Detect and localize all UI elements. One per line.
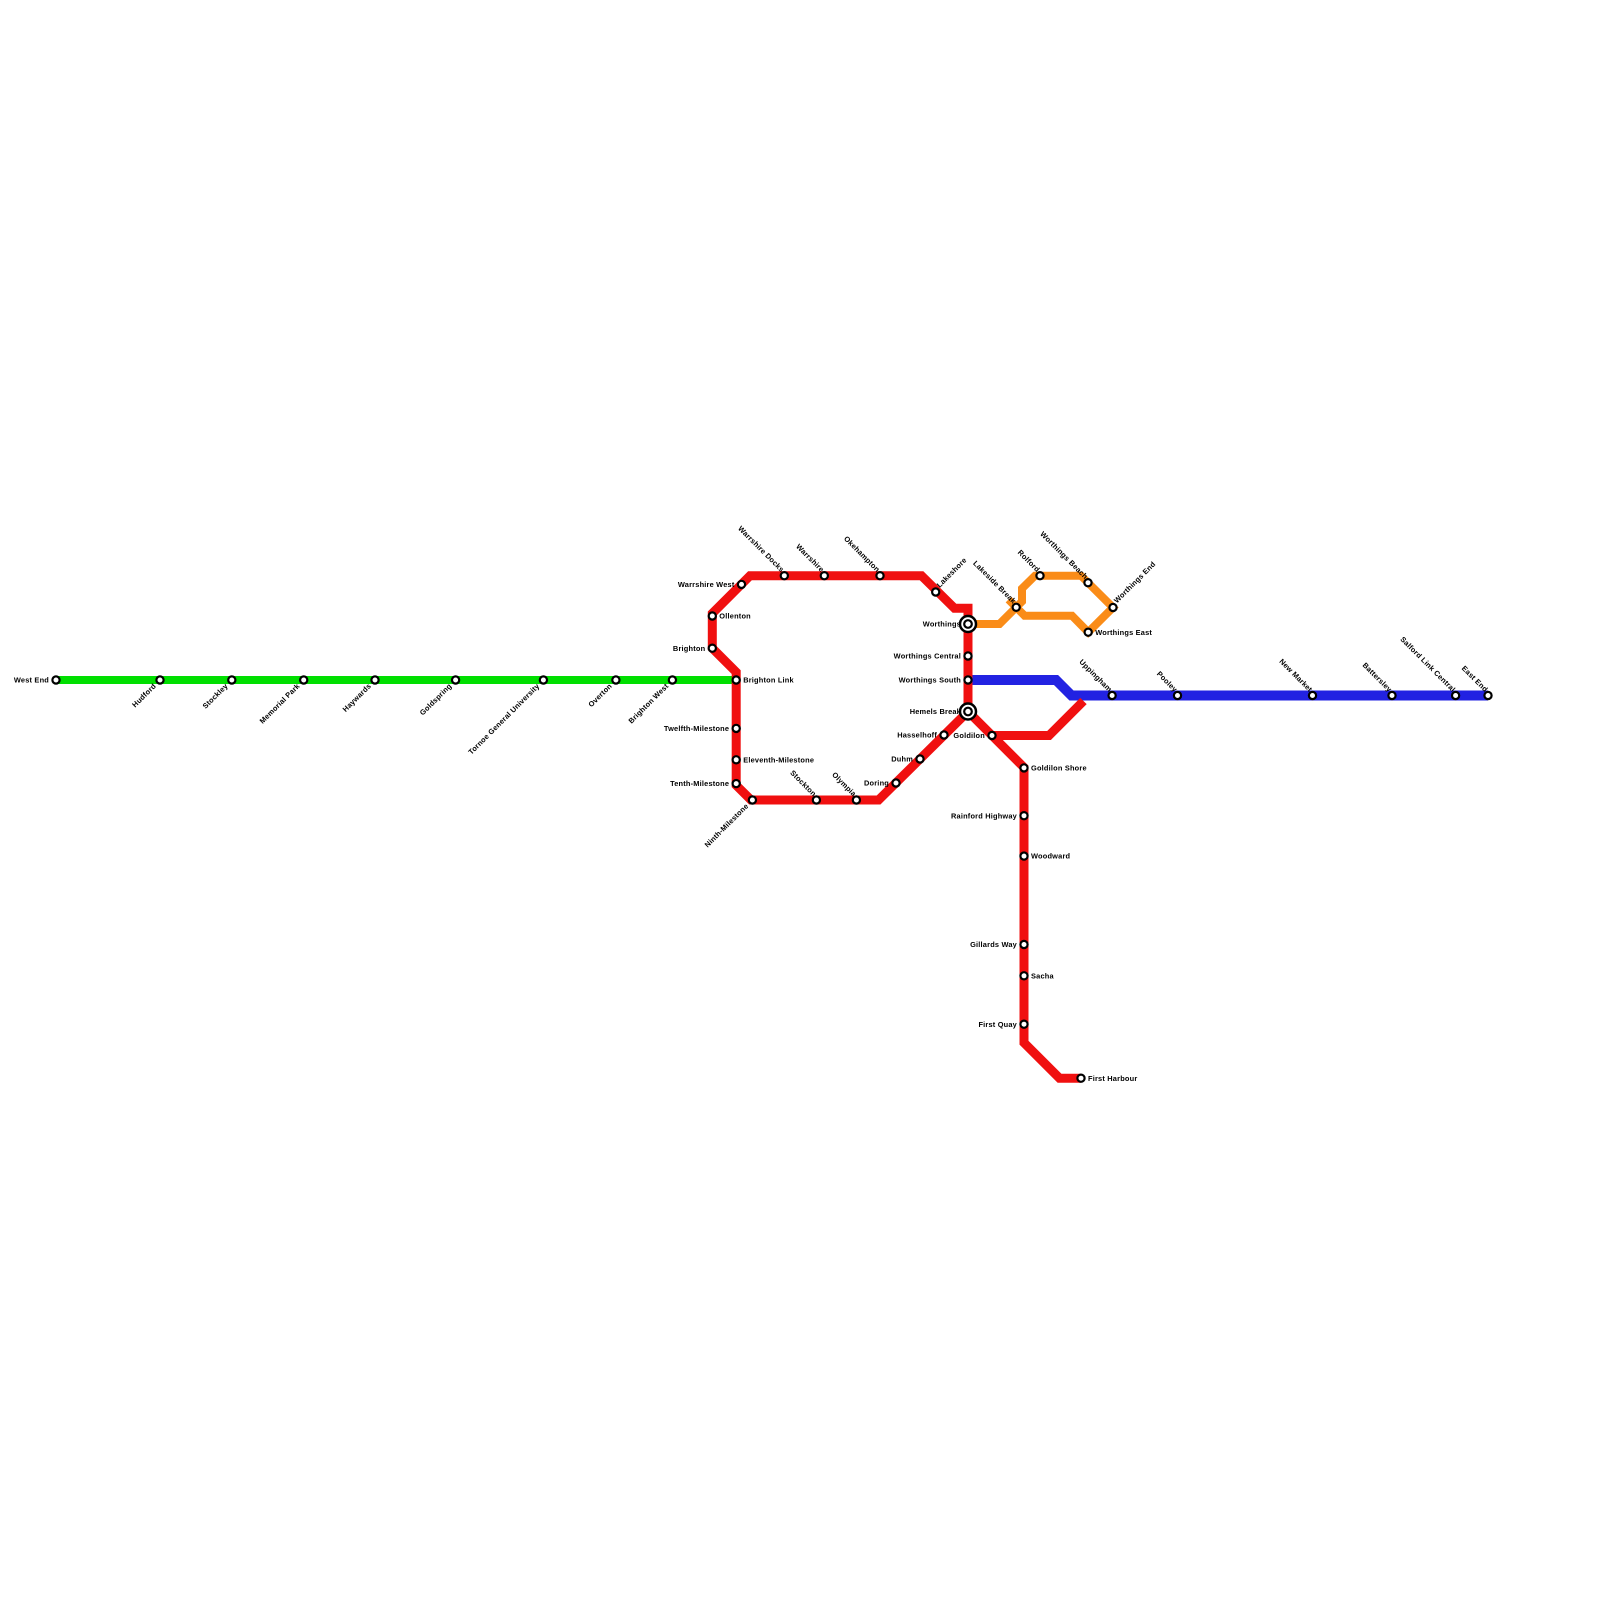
station Lakeside Break	[1013, 604, 1020, 611]
svg-text:West End: West End	[14, 676, 49, 685]
station Stockton	[813, 796, 820, 803]
station Lakeshore	[932, 588, 939, 595]
svg-text:Twelfth-Milestone: Twelfth-Milestone	[664, 724, 729, 733]
station Warrshire Docks	[781, 572, 788, 579]
station Sacha	[1020, 972, 1027, 979]
station Worthings Central	[964, 652, 971, 659]
station Goldilon Shore	[1020, 764, 1027, 771]
station Tornoe General University	[540, 676, 547, 683]
station Worthings South	[964, 676, 971, 683]
svg-text:Sacha: Sacha	[1031, 971, 1054, 980]
station Brighton West	[669, 676, 676, 683]
svg-text:Hasselhoff: Hasselhoff	[897, 731, 937, 740]
svg-text:Goldilon Shore: Goldilon Shore	[1031, 764, 1087, 773]
station Worthings	[960, 616, 976, 632]
station East End	[1484, 692, 1491, 699]
station Eleventh-Milestone	[733, 756, 740, 763]
svg-text:Tenth-Milestone: Tenth-Milestone	[670, 779, 729, 788]
svg-text:First Harbour: First Harbour	[1088, 1074, 1137, 1083]
svg-text:Brighton Link: Brighton Link	[743, 676, 794, 685]
svg-text:Ollenton: Ollenton	[719, 612, 751, 621]
station Doring	[892, 779, 899, 786]
Red Line Goldilon spur	[992, 701, 1084, 736]
station Battersley	[1388, 692, 1395, 699]
svg-text:Worthings: Worthings	[923, 620, 961, 629]
svg-text:Goldilon: Goldilon	[953, 731, 985, 740]
station Overton	[612, 676, 619, 683]
Blue Line Worthings South to East End	[968, 680, 1488, 696]
station Olympia	[853, 796, 860, 803]
svg-text:Doring: Doring	[864, 779, 889, 788]
station Ninth-Milestone	[749, 796, 756, 803]
station Worthings End	[1109, 604, 1116, 611]
station Hasselhoff	[940, 731, 947, 738]
station Ollenton	[709, 612, 716, 619]
station Duhm	[916, 755, 923, 762]
svg-text:Brighton: Brighton	[673, 644, 706, 653]
station Salford Link Central	[1452, 692, 1459, 699]
station Worthings East	[1085, 629, 1092, 636]
station Twelfth-Milestone	[733, 725, 740, 732]
station Haywards	[371, 676, 378, 683]
Red Line loop	[712, 576, 968, 800]
station New Market	[1309, 692, 1316, 699]
station Gillards Way	[1020, 941, 1027, 948]
station Goldilon	[988, 732, 995, 739]
station West End	[52, 676, 59, 683]
Red Line south branch to First Harbour	[968, 712, 1081, 1079]
station Brighton Link	[733, 676, 740, 683]
svg-text:Warrshire West: Warrshire West	[678, 580, 735, 589]
station Rainford Highway	[1020, 812, 1027, 819]
svg-text:Duhm: Duhm	[891, 755, 913, 764]
station Brighton	[709, 645, 716, 652]
station Hudford	[156, 676, 163, 683]
station First Quay	[1020, 1021, 1027, 1028]
svg-text:Woodward: Woodward	[1031, 852, 1071, 861]
svg-text:Worthings East: Worthings East	[1095, 628, 1152, 637]
station Warrshire	[821, 572, 828, 579]
svg-text:Rainford Highway: Rainford Highway	[951, 811, 1018, 820]
Orange Loop Worthings circular	[968, 576, 1113, 633]
svg-text:Gillards Way: Gillards Way	[970, 940, 1018, 949]
station Woodward	[1020, 853, 1027, 860]
station Warrshire West	[738, 581, 745, 588]
svg-text:Worthings South: Worthings South	[899, 676, 962, 685]
station First Harbour	[1077, 1075, 1084, 1082]
Green Line West End to Brighton Link	[56, 676, 736, 684]
station Pooley	[1174, 692, 1181, 699]
station Goldspring	[452, 676, 459, 683]
station Tenth-Milestone	[733, 780, 740, 787]
svg-text:Hemels Break: Hemels Break	[910, 707, 962, 716]
station Memorial Park	[300, 676, 307, 683]
svg-text:First Quay: First Quay	[978, 1020, 1017, 1029]
station Hemels Break	[960, 704, 976, 720]
station Stockley	[228, 676, 235, 683]
svg-text:Eleventh-Milestone: Eleventh-Milestone	[743, 755, 814, 764]
svg-text:Worthings Central: Worthings Central	[894, 652, 961, 661]
station Rolford	[1036, 572, 1043, 579]
station Uppingham	[1109, 692, 1116, 699]
station Okehampton	[876, 572, 883, 579]
station Worthings Beach	[1084, 579, 1091, 586]
